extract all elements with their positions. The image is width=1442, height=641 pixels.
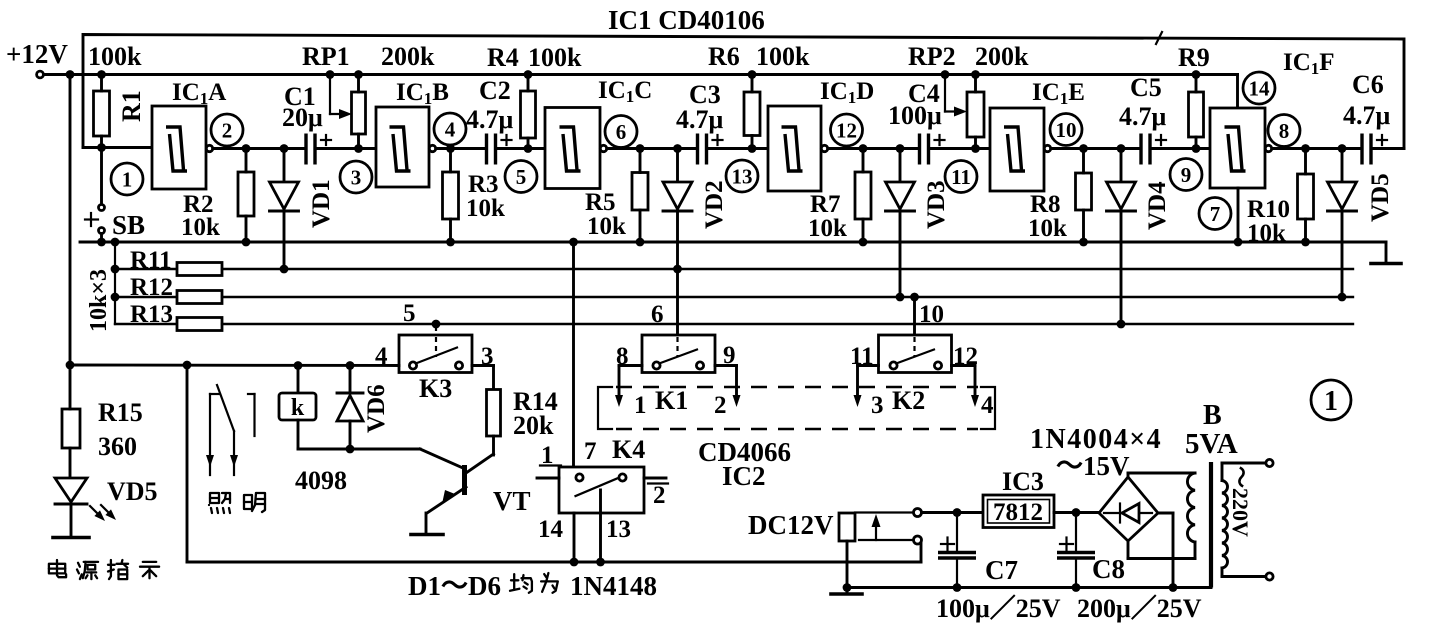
svg-text:+12V: +12V <box>6 39 68 69</box>
svg-text:100k: 100k <box>528 43 582 72</box>
label IC1C <box>598 77 652 106</box>
svg-text:IC2: IC2 <box>722 461 766 491</box>
svg-text:C8: C8 <box>1092 554 1125 584</box>
resistor R1 100k <box>88 42 142 152</box>
svg-text:4.7μ: 4.7μ <box>1119 102 1167 131</box>
wire K4 pin2 <box>644 478 668 509</box>
label pin 10 <box>919 301 944 328</box>
label IC1 CD40106 (chip title) <box>608 5 765 35</box>
pin 6 (IC1C output) <box>605 116 637 148</box>
label VD5 (chain) <box>1367 173 1394 222</box>
label pin 6 <box>651 301 664 328</box>
wire feedback ring from IC1F output to IC1A input (top) <box>83 32 1404 149</box>
label ~220V <box>1228 466 1253 537</box>
svg-text:7: 7 <box>1210 202 1221 226</box>
label VT <box>493 486 531 516</box>
svg-text:C7: C7 <box>985 555 1018 585</box>
svg-text:VD4: VD4 <box>1144 181 1171 230</box>
resistor R2 10k <box>181 149 254 247</box>
svg-text:200k: 200k <box>975 42 1029 71</box>
svg-text:4098: 4098 <box>295 466 347 495</box>
svg-text:1: 1 <box>634 392 647 419</box>
wire K1 pin9 to channel 2 <box>714 366 741 420</box>
svg-text:k: k <box>291 395 305 421</box>
LED arrows <box>90 505 116 521</box>
svg-text:R13: R13 <box>130 301 173 328</box>
svg-text:C2: C2 <box>479 76 511 105</box>
wire jack pin to regulator <box>922 508 984 517</box>
svg-text:100μ／25V: 100μ／25V <box>936 594 1061 623</box>
resistor R4 100k <box>487 43 582 153</box>
wire K2 pin11 to channel 3 <box>854 366 884 420</box>
capacitor C2 4.7u <box>466 76 514 165</box>
svg-text:200μ／25V: 200μ／25V <box>1077 594 1202 623</box>
resistor R7 10k <box>808 149 871 247</box>
label 10k x3 <box>86 269 112 332</box>
pin 7 label <box>1199 198 1231 230</box>
wire K3 control (dashed) <box>403 300 440 334</box>
svg-text:R4: R4 <box>487 43 519 72</box>
label R1 <box>117 90 146 122</box>
svg-text:IC1E: IC1E <box>1032 79 1085 108</box>
label VD4 <box>1144 181 1171 230</box>
resistor R12 10k <box>115 274 1353 304</box>
svg-text:20k: 20k <box>513 411 554 440</box>
diode VD2 <box>663 149 692 336</box>
op-amp U1 inverter IC1D (Schmitt) <box>768 106 828 191</box>
ground symbol right end <box>1371 242 1401 264</box>
wire ground bus (y242) <box>80 241 1386 244</box>
label 200u/25V <box>1077 594 1202 623</box>
pin 9 (IC1F input) <box>1170 159 1202 191</box>
svg-text:4.7μ: 4.7μ <box>1343 101 1391 130</box>
svg-text:100k: 100k <box>88 42 142 71</box>
diode VD6 <box>337 366 363 450</box>
wire relay supply bus (y365) <box>66 361 399 370</box>
ground symbol at DC jack <box>831 588 862 595</box>
svg-text:R12: R12 <box>130 274 173 301</box>
diode VD3 <box>886 149 915 302</box>
svg-text:2: 2 <box>222 119 233 143</box>
svg-text:R11: R11 <box>130 247 172 274</box>
svg-text:RP1: RP1 <box>302 42 350 71</box>
resistor R3 10k <box>443 149 506 247</box>
transformer B 5VA <box>1185 400 1273 588</box>
pin 1 (IC1A input) <box>111 163 143 195</box>
svg-text:10k: 10k <box>808 215 847 242</box>
wire K2 pin12 to channel 4 <box>952 366 995 420</box>
svg-text:5VA: 5VA <box>1185 428 1238 460</box>
svg-text:13: 13 <box>606 516 631 543</box>
pin 2 (IC1A output) <box>211 114 243 146</box>
svg-text:K4: K4 <box>612 435 645 464</box>
svg-text:R7: R7 <box>810 191 841 218</box>
label IC1E <box>1032 79 1085 108</box>
svg-text:B: B <box>1203 400 1222 431</box>
wire jack sleeve to bus <box>920 544 923 563</box>
wire IC1B output <box>436 144 486 153</box>
svg-text:R3: R3 <box>468 171 499 198</box>
resistor R6 100k <box>708 42 810 153</box>
pin 12 (IC1D output) <box>831 114 863 146</box>
wire IC1B input <box>315 147 376 150</box>
svg-text:D1～D6: D1～D6 <box>408 571 501 601</box>
resistor R11 10k <box>115 247 1353 276</box>
IC2 CD4066 dashed outline <box>598 387 995 429</box>
resistor R8 10k <box>1028 149 1092 247</box>
svg-text:SB: SB <box>112 210 145 240</box>
label VD5 (LED) <box>107 477 158 506</box>
svg-text:IC3: IC3 <box>1002 467 1044 496</box>
pin 8 (IC1F output) <box>1268 115 1300 147</box>
junction rows-connector on ground bus <box>111 238 120 247</box>
svg-text:8: 8 <box>1279 119 1290 143</box>
pin 10 (IC1E output) <box>1050 114 1082 146</box>
svg-text:14: 14 <box>538 516 564 543</box>
label pin 7 K4 <box>584 435 645 465</box>
svg-text:10k: 10k <box>181 214 220 241</box>
svg-text:IC1B: IC1B <box>396 79 449 108</box>
junction on +12V rail at x70 <box>66 70 75 79</box>
switch K3 <box>375 335 494 403</box>
svg-text:12: 12 <box>836 119 857 143</box>
svg-text:DC12V: DC12V <box>748 510 834 540</box>
svg-text:13: 13 <box>732 165 753 189</box>
svg-text:10: 10 <box>919 301 944 328</box>
svg-text:10k: 10k <box>1028 215 1067 242</box>
regulator IC3 7812 <box>983 467 1054 528</box>
svg-text:VD2: VD2 <box>701 180 728 229</box>
svg-text:1: 1 <box>1324 386 1338 417</box>
label IC1F <box>1283 49 1335 78</box>
wire K1 pin8 to channel 1 <box>615 366 647 420</box>
svg-text:3: 3 <box>351 166 362 190</box>
svg-text:C5: C5 <box>1130 73 1162 102</box>
wire IC1C input <box>496 147 546 150</box>
label IC1A <box>172 79 226 108</box>
label IC2 <box>722 461 766 491</box>
svg-text:RP2: RP2 <box>908 42 956 71</box>
svg-text:10: 10 <box>1056 118 1077 142</box>
wire bottom bus <box>187 561 921 564</box>
pin 14 (VDD) <box>1243 72 1275 104</box>
svg-text:VD5: VD5 <box>1367 173 1394 222</box>
label zhaoming (lighting) <box>209 493 265 513</box>
wire IC1F output <box>1272 144 1362 153</box>
diode VD1 <box>270 149 299 274</box>
svg-text:5: 5 <box>516 165 527 189</box>
svg-text:IC1D: IC1D <box>820 78 874 107</box>
label 4098 <box>295 466 347 495</box>
label CD4066 <box>698 437 791 467</box>
relay coil k 4098 <box>279 366 420 454</box>
capacitor C7 100u/25V <box>938 513 1018 592</box>
svg-text:4: 4 <box>981 392 994 419</box>
wire K3 pin3 to R14 <box>472 366 494 390</box>
transistor Q1 VT <box>411 436 494 535</box>
svg-text:2: 2 <box>653 482 666 509</box>
op-amp U1 inverter IC1A (Schmitt) <box>152 106 213 189</box>
svg-text:11: 11 <box>951 165 971 189</box>
svg-text:4.7μ: 4.7μ <box>466 105 514 134</box>
pin 11 (IC1E input) <box>945 161 977 193</box>
svg-text:C6: C6 <box>1352 70 1384 99</box>
label VD3 <box>923 180 950 229</box>
resistor R5 10k <box>585 149 648 247</box>
svg-text:360: 360 <box>98 432 137 461</box>
potentiometer RP2 200k <box>908 42 1029 153</box>
wire IC1E output <box>1051 144 1141 153</box>
wire PSU ground line <box>847 586 1211 589</box>
svg-text:9: 9 <box>1181 163 1192 187</box>
svg-text:100μ: 100μ <box>888 101 942 130</box>
svg-text:100k: 100k <box>756 42 810 71</box>
svg-text:7812: 7812 <box>993 499 1043 526</box>
op-amp U1 inverter IC1B (Schmitt) <box>376 107 436 187</box>
label dianyuan zhishi (power indicator) <box>49 560 159 579</box>
DC jack DC12V <box>748 509 922 545</box>
wire 7812 output side <box>1054 508 1099 517</box>
svg-text:VT: VT <box>493 486 531 516</box>
svg-text:6: 6 <box>616 120 627 144</box>
svg-text:3: 3 <box>871 392 884 419</box>
wire +12V to pin 14 <box>1196 75 1238 109</box>
label ~15V <box>1056 451 1130 481</box>
svg-text:14: 14 <box>1249 77 1271 101</box>
svg-text:4: 4 <box>445 118 456 142</box>
svg-text:VD1: VD1 <box>308 179 335 228</box>
capacitor C4 100u <box>888 79 945 165</box>
label 100u/25V <box>936 594 1061 623</box>
capacitor C8 200u/25V <box>1057 513 1125 592</box>
resistor R15 360 <box>62 365 143 478</box>
svg-text:R1: R1 <box>117 90 146 122</box>
wire IC1A output <box>213 144 306 153</box>
svg-text:2: 2 <box>714 392 727 419</box>
wire K4 pin13 <box>596 490 631 566</box>
diode VD4 <box>1107 149 1136 329</box>
svg-text:IC1C: IC1C <box>598 77 652 106</box>
pin 4 (IC1B output) <box>434 113 466 145</box>
wire left frame of relay box <box>186 365 189 562</box>
capacitor C3 4.7u <box>676 80 724 165</box>
label IC1B <box>396 79 449 108</box>
svg-text:K1: K1 <box>655 386 688 415</box>
wire plug ground drop <box>843 541 852 592</box>
svg-text:5: 5 <box>403 300 416 327</box>
pin 3 (IC1B input) <box>340 161 372 193</box>
svg-text:IC1F: IC1F <box>1283 49 1335 78</box>
op-amp U1 inverter IC1C (Schmitt) <box>545 108 607 189</box>
svg-text:R10: R10 <box>1247 196 1290 223</box>
label D1-D6 note <box>408 571 657 601</box>
capacitor C5 4.7u <box>1119 73 1167 165</box>
capacitor C6 4.7u <box>1343 70 1391 165</box>
resistor R10 10k <box>1247 149 1314 248</box>
svg-text:VD3: VD3 <box>923 180 950 229</box>
label VD6 <box>363 384 390 433</box>
svg-text:200k: 200k <box>381 42 435 71</box>
wire K2 control <box>910 293 919 335</box>
node +12V terminal <box>6 39 68 78</box>
wire SB branch <box>100 148 103 205</box>
resistor R13 10k <box>115 301 1353 331</box>
wire rows left connector <box>111 242 120 324</box>
resistor R9 <box>1178 43 1210 153</box>
svg-text:R5: R5 <box>585 189 616 216</box>
svg-text:1: 1 <box>122 168 133 192</box>
svg-text:～15V: ～15V <box>1056 451 1130 481</box>
svg-text:K3: K3 <box>419 374 452 403</box>
svg-text:～220V: ～220V <box>1228 466 1253 537</box>
label VD1 <box>308 179 335 228</box>
svg-text:1N4148: 1N4148 <box>570 571 657 601</box>
wire IC1A input <box>83 146 152 149</box>
diode VD5 (chain) <box>1328 149 1357 302</box>
wire +12V branch down left side <box>69 75 72 366</box>
wire K4 pin14 <box>538 513 578 566</box>
label VD2 <box>701 180 728 229</box>
svg-text:R6: R6 <box>708 42 740 71</box>
svg-text:7: 7 <box>584 438 597 465</box>
wire IC1E input <box>929 147 991 150</box>
wire C6 to ring <box>1372 147 1405 150</box>
switch K2 <box>850 335 978 415</box>
svg-text:VD5: VD5 <box>107 477 158 506</box>
pin 7 (GND) wire <box>1234 188 1243 246</box>
switch K1 <box>616 335 736 415</box>
bridge rectifier 1N4004 x4 <box>1099 473 1195 592</box>
pin 13 (IC1D input) <box>726 160 758 192</box>
svg-text:6: 6 <box>651 301 664 328</box>
resistor R14 20k <box>487 387 558 440</box>
capacitor C1 20u <box>282 82 331 165</box>
svg-text:IC1A: IC1A <box>172 79 226 108</box>
svg-text:R8: R8 <box>1030 191 1061 218</box>
wire IC1F input <box>1150 147 1210 150</box>
label IC1D <box>820 78 874 107</box>
wire K4 control column <box>569 238 578 467</box>
potentiometer RP1 200k <box>302 42 435 153</box>
svg-text:10k×3: 10k×3 <box>86 269 112 332</box>
LED VD5 power indicator <box>53 478 89 538</box>
svg-text:VD6: VD6 <box>363 384 390 433</box>
op-amp U1 inverter IC1F (Schmitt) <box>1210 108 1272 188</box>
svg-text:IC1 CD40106: IC1 CD40106 <box>608 5 765 35</box>
svg-text:R9: R9 <box>1178 43 1210 72</box>
svg-text:K2: K2 <box>892 386 925 415</box>
wire IC1C output <box>607 144 698 153</box>
svg-text:10k: 10k <box>466 195 505 222</box>
op-amp U1 inverter IC1E (Schmitt) <box>990 108 1051 191</box>
switch K4 <box>559 467 644 513</box>
lamp plug symbol (zhaoming) <box>206 385 255 475</box>
svg-text:R15: R15 <box>98 398 143 427</box>
wire +12V rail (top horizontal) <box>44 73 1197 76</box>
svg-text:20μ: 20μ <box>282 103 323 132</box>
svg-text:4.7μ: 4.7μ <box>676 105 724 134</box>
wire IC1D input <box>707 147 769 150</box>
svg-text:10k: 10k <box>587 213 626 240</box>
label 1N4004 x4 <box>1030 424 1162 455</box>
figure mark circled 1 <box>1311 380 1351 420</box>
svg-text:1: 1 <box>541 442 554 469</box>
pushbutton SB <box>85 205 145 247</box>
pin 5 (IC1C input) <box>505 161 537 193</box>
wire IC1D output <box>828 144 920 153</box>
wire K4 pin1 <box>537 442 561 478</box>
